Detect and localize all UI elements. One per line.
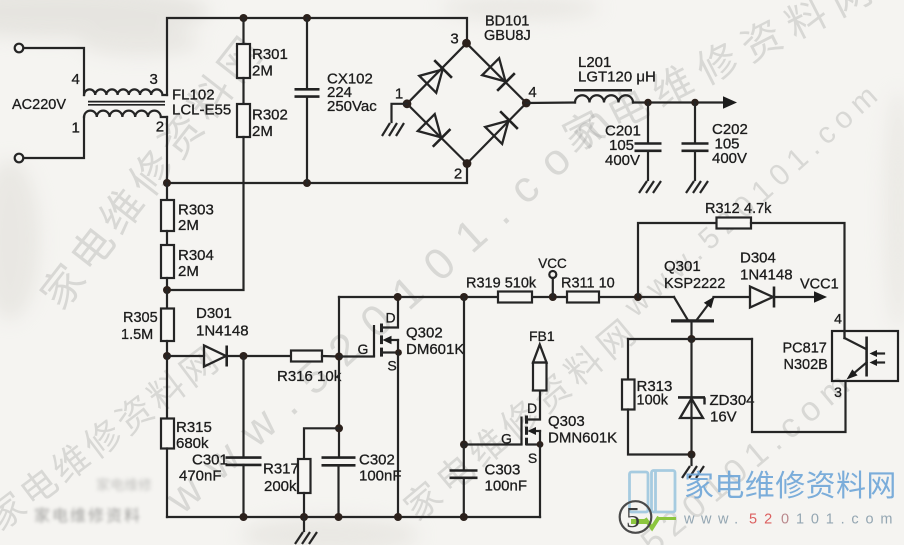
svg-text:2M: 2M bbox=[252, 63, 273, 80]
svg-text:2: 2 bbox=[454, 166, 462, 183]
wire bbox=[23, 48, 84, 95]
resistor R315 bbox=[166, 356, 168, 419]
wire R302 bottom to node A bbox=[167, 137, 244, 290]
node Q302 gate bbox=[335, 353, 343, 361]
svg-text:R315: R315 bbox=[176, 419, 212, 436]
node Q301 base bbox=[688, 335, 696, 343]
svg-text:VCC: VCC bbox=[538, 256, 567, 271]
resistor R312 bbox=[638, 223, 717, 297]
wire bbox=[242, 78, 244, 104]
svg-text:R319 510k: R319 510k bbox=[466, 276, 537, 292]
resistor R304 bbox=[166, 231, 168, 245]
svg-text:400V: 400V bbox=[712, 150, 747, 167]
svg-text:G: G bbox=[501, 431, 512, 447]
svg-text:250Vac: 250Vac bbox=[327, 98, 377, 115]
svg-text:D304: D304 bbox=[740, 250, 776, 267]
node VCC tap bbox=[549, 293, 557, 301]
line filter FL102 top winding bbox=[84, 89, 167, 95]
wire bridge pin1 to chassis ground bbox=[392, 104, 408, 122]
capacitor C202 bbox=[694, 103, 696, 144]
fuse FB1 bbox=[533, 363, 547, 391]
resistor R303 bbox=[166, 183, 168, 200]
svg-text:1N4148: 1N4148 bbox=[196, 323, 249, 340]
node R317/C302 bbox=[335, 424, 343, 432]
svg-text:C303: C303 bbox=[485, 462, 521, 479]
svg-text:R303: R303 bbox=[178, 202, 214, 219]
AC input terminal bottom bbox=[15, 154, 24, 163]
node Q302 drain bbox=[394, 293, 402, 301]
node C (D301/C301/R316) bbox=[240, 352, 248, 360]
svg-text:16V: 16V bbox=[710, 409, 737, 426]
wire bbox=[242, 18, 244, 44]
wire Q303 gate riser bbox=[463, 297, 465, 445]
bridge diode bottom-right bbox=[485, 111, 518, 144]
svg-text:100k: 100k bbox=[637, 393, 669, 409]
VCC terminal bbox=[549, 271, 556, 278]
svg-text:R301: R301 bbox=[252, 46, 288, 63]
svg-text:D301: D301 bbox=[196, 305, 232, 322]
svg-text:4.7k: 4.7k bbox=[744, 201, 772, 217]
node B (R305/D301/R315) bbox=[166, 341, 168, 356]
svg-text:S: S bbox=[528, 450, 537, 466]
svg-text:1N4148: 1N4148 bbox=[740, 267, 793, 284]
svg-text:3: 3 bbox=[834, 384, 842, 400]
ground at C201 bbox=[639, 181, 661, 193]
capacitor C303 bbox=[463, 445, 465, 471]
svg-text:4: 4 bbox=[72, 71, 80, 88]
svg-text:ZD304: ZD304 bbox=[710, 392, 755, 409]
svg-text:1: 1 bbox=[395, 86, 403, 103]
svg-text:Q303: Q303 bbox=[548, 413, 585, 430]
inductor L201 bbox=[575, 95, 633, 102]
svg-text:C301: C301 bbox=[192, 452, 228, 469]
svg-text:2: 2 bbox=[156, 119, 164, 136]
zener ZD304 bbox=[690, 339, 692, 455]
diode D301 bbox=[167, 355, 204, 357]
capacitor CX102 bbox=[306, 18, 308, 89]
svg-text:D: D bbox=[527, 400, 537, 416]
svg-text:VCC1: VCC1 bbox=[800, 277, 839, 293]
svg-text:家电维修资料网: 家电维修资料网 bbox=[684, 470, 897, 503]
svg-text:1.5M: 1.5M bbox=[121, 327, 153, 343]
svg-text:3: 3 bbox=[150, 71, 158, 88]
svg-text:R312: R312 bbox=[705, 201, 740, 217]
bridge diode top-left bbox=[419, 60, 452, 93]
node Q303 gate riser bbox=[460, 293, 468, 301]
node A (R304/R305/R302) bbox=[166, 278, 168, 290]
svg-text:2M: 2M bbox=[178, 263, 199, 280]
resistor R311 bbox=[567, 292, 599, 303]
wire Q302 source to ground rail bbox=[397, 353, 399, 518]
node top rail CX102 bbox=[303, 14, 311, 22]
resistor R313 bbox=[627, 339, 629, 380]
node bottom rail left bbox=[163, 179, 171, 187]
svg-text:R302: R302 bbox=[252, 107, 288, 124]
wire Q303 source to ground rail bbox=[539, 445, 541, 518]
svg-text:FB1: FB1 bbox=[529, 328, 555, 344]
MOSFET Q302 bbox=[339, 355, 374, 357]
svg-text:100nF: 100nF bbox=[359, 468, 402, 485]
wire top rail bbox=[167, 18, 467, 95]
svg-text:家电维修: 家电维修 bbox=[96, 477, 152, 493]
svg-text:680k: 680k bbox=[176, 435, 209, 452]
logo green swoosh bbox=[631, 519, 648, 524]
resistor R302 bbox=[237, 104, 250, 137]
node C202 bbox=[691, 99, 699, 107]
resistor R317 bbox=[304, 428, 339, 459]
svg-text:C302: C302 bbox=[359, 452, 395, 469]
line filter FL102 bottom winding bbox=[84, 111, 167, 117]
node ZD304 ground bbox=[688, 451, 696, 459]
wire base node bbox=[628, 338, 752, 340]
svg-text:DM601K: DM601K bbox=[406, 341, 464, 358]
ground at C202 bbox=[686, 181, 708, 193]
ground rail bbox=[167, 516, 540, 518]
resistor R319 bbox=[498, 292, 532, 303]
svg-text:LCL-E55: LCL-E55 bbox=[172, 102, 231, 119]
svg-text:www.520101.com: www.520101.com bbox=[683, 512, 899, 528]
svg-text:2M: 2M bbox=[252, 123, 273, 140]
capacitor C301 bbox=[242, 356, 244, 457]
svg-text:R316 10k: R316 10k bbox=[277, 368, 342, 385]
svg-text:2M: 2M bbox=[178, 217, 199, 234]
svg-text:R311 10: R311 10 bbox=[561, 276, 615, 292]
bridge pin nodes bbox=[462, 39, 471, 48]
svg-text:470nF: 470nF bbox=[179, 468, 222, 485]
svg-text:R317: R317 bbox=[263, 461, 299, 478]
svg-text:Q302: Q302 bbox=[406, 325, 443, 342]
ground at bridge pin1 bbox=[382, 123, 404, 136]
wire gate/drain bus bbox=[339, 296, 674, 298]
svg-text:S: S bbox=[387, 358, 396, 374]
svg-text:DMN601K: DMN601K bbox=[548, 430, 617, 447]
resistor R305 bbox=[166, 290, 168, 309]
svg-text:Q301: Q301 bbox=[664, 258, 701, 275]
node bottom rail CX102 bbox=[303, 179, 311, 187]
node R312 branch bbox=[634, 293, 642, 301]
ground at main rail bbox=[303, 517, 305, 531]
node C201 bbox=[644, 99, 652, 107]
svg-text:G: G bbox=[358, 341, 369, 357]
line filter FL102 core bbox=[88, 101, 165, 103]
svg-text:D: D bbox=[385, 310, 395, 326]
svg-text:R305: R305 bbox=[123, 310, 158, 326]
optocoupler PC817 bbox=[832, 331, 898, 381]
node top rail R301 bbox=[240, 14, 248, 22]
wire gate riser bbox=[338, 297, 340, 457]
svg-text:PC817: PC817 bbox=[783, 341, 827, 357]
svg-text:4: 4 bbox=[834, 311, 842, 327]
svg-text:1: 1 bbox=[72, 120, 80, 137]
wire DC bus with arrow bbox=[633, 101, 725, 103]
bridge rectifier BD101 edges bbox=[407, 43, 526, 163]
svg-text:N302B: N302B bbox=[784, 357, 828, 373]
wire R315 to ground rail bbox=[166, 449, 168, 518]
svg-text:LGT120 μH: LGT120 μH bbox=[578, 69, 656, 86]
svg-text:200k: 200k bbox=[264, 478, 297, 495]
svg-text:3: 3 bbox=[450, 31, 458, 48]
svg-text:AC220V: AC220V bbox=[12, 97, 66, 113]
resistor R316 bbox=[291, 351, 322, 362]
svg-text:家电维修资料: 家电维修资料 bbox=[34, 507, 142, 525]
svg-text:GBU8J: GBU8J bbox=[484, 28, 531, 44]
ground at ZD304 bbox=[690, 455, 692, 466]
svg-text:100nF: 100nF bbox=[485, 478, 528, 495]
wire PC817 pin3 to base node bbox=[752, 339, 846, 432]
svg-text:R304: R304 bbox=[178, 247, 214, 264]
wire bbox=[23, 117, 84, 158]
svg-text:5: 5 bbox=[626, 503, 640, 534]
svg-text:400V: 400V bbox=[605, 152, 640, 169]
capacitor C302 bbox=[322, 456, 356, 459]
MOSFET Q303 bbox=[464, 443, 522, 445]
transistor Q301 bbox=[674, 297, 688, 320]
logo book icon bbox=[630, 471, 676, 513]
bridge diode bottom-left bbox=[417, 114, 450, 147]
AC input terminal top bbox=[15, 44, 24, 53]
wire bridge output bbox=[526, 101, 575, 104]
capacitor C201 bbox=[647, 103, 649, 144]
diode D304 bbox=[714, 296, 750, 298]
wire bottom rail bbox=[167, 117, 467, 183]
resistor R301 bbox=[237, 44, 250, 78]
circled number 5 bbox=[620, 501, 652, 533]
svg-text:4: 4 bbox=[528, 84, 536, 101]
svg-text:KSP2222: KSP2222 bbox=[664, 276, 725, 292]
bridge diode top-right bbox=[482, 58, 515, 91]
